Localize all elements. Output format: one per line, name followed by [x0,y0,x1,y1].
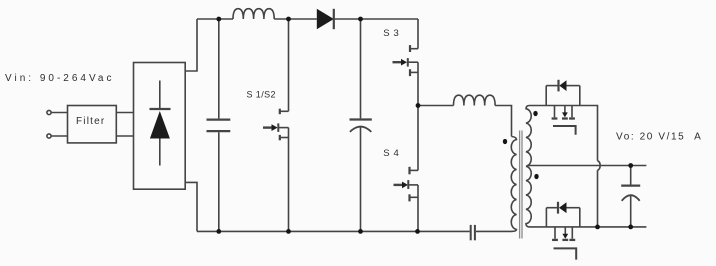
wire down to bottom output rail [597,170,599,227]
wire output positive rail (center tap) [527,165,646,167]
transistor SR1 [552,106,576,135]
node bottom rail S4 [415,229,420,234]
transistor S3 [393,19,419,106]
wire top rail left segment [197,18,233,20]
node bottom rail C2 [358,229,363,234]
wire Lr to transformer primary [495,106,511,137]
svg-text:S 3: S 3 [383,28,399,39]
node input terminal bottom [47,134,51,138]
node output negative SR1 [595,225,600,230]
wire terminal-top to filter [51,112,67,114]
transformer T1 secondary bottom winding [526,166,531,227]
node secondary bottom polarity dot [534,174,538,179]
capacitor C1 [207,19,231,231]
diode DR1 loop [546,80,580,106]
transformer T1 secondary top winding [526,106,531,167]
svg-text:Vo: 20 V/15 A: Vo: 20 V/15 A [616,132,702,143]
node S3-S4 midpoint [416,103,421,108]
bridge rectifier box [134,63,186,190]
node output negative Co [628,225,633,230]
wire hop over output rail [598,161,601,170]
node input terminal top [47,110,51,114]
node top rail C2 [358,17,363,22]
wire node to Lr [418,105,454,107]
wire filter to bridge bottom [116,135,133,137]
node bottom rail C1 [216,229,221,234]
node output positive Co [628,163,633,168]
node bottom rail S1/S2 [286,229,291,234]
inductor Lr [454,95,496,105]
node top rail S1/S2 [286,17,291,22]
node primary polarity dot [503,139,507,144]
wire bottom rail [197,230,470,232]
bridge diode D-BR [150,81,171,166]
svg-text:Filter: Filter [76,116,105,127]
transistor S4 [394,106,419,232]
diode D1 [317,9,334,29]
capacitor Co [621,166,640,227]
diode DR2 loop [546,202,579,227]
wire bridge positive output to top rail [185,19,197,71]
wire filter to bridge top [116,112,133,114]
wire Cr to transformer [476,230,512,232]
svg-text:Vin: 90-264Vac: Vin: 90-264Vac [5,73,114,84]
wire bridge negative output to bottom rail [185,182,197,231]
svg-text:S 4: S 4 [383,148,399,159]
wire terminal-bottom to filter [51,135,67,137]
svg-text:S 1/S2: S 1/S2 [247,90,276,100]
inductor Lin [233,9,274,19]
transistor SR2 [552,227,576,260]
transformer core [519,131,521,239]
capacitor Cr [471,225,475,240]
wire secondary bottom lead [530,226,647,228]
wire top rail right of D1 [334,18,418,20]
transformer T1 primary winding [511,137,516,232]
transistor S1/S2 [263,19,289,231]
wire top rail right of Lin [274,18,317,20]
filter box [68,106,117,143]
capacitor C2 [350,19,372,231]
wire SR1 to output negative [580,106,598,161]
node top rail C1 [216,17,221,22]
node secondary top polarity dot [533,111,537,116]
wire secondary top lead [530,105,581,107]
